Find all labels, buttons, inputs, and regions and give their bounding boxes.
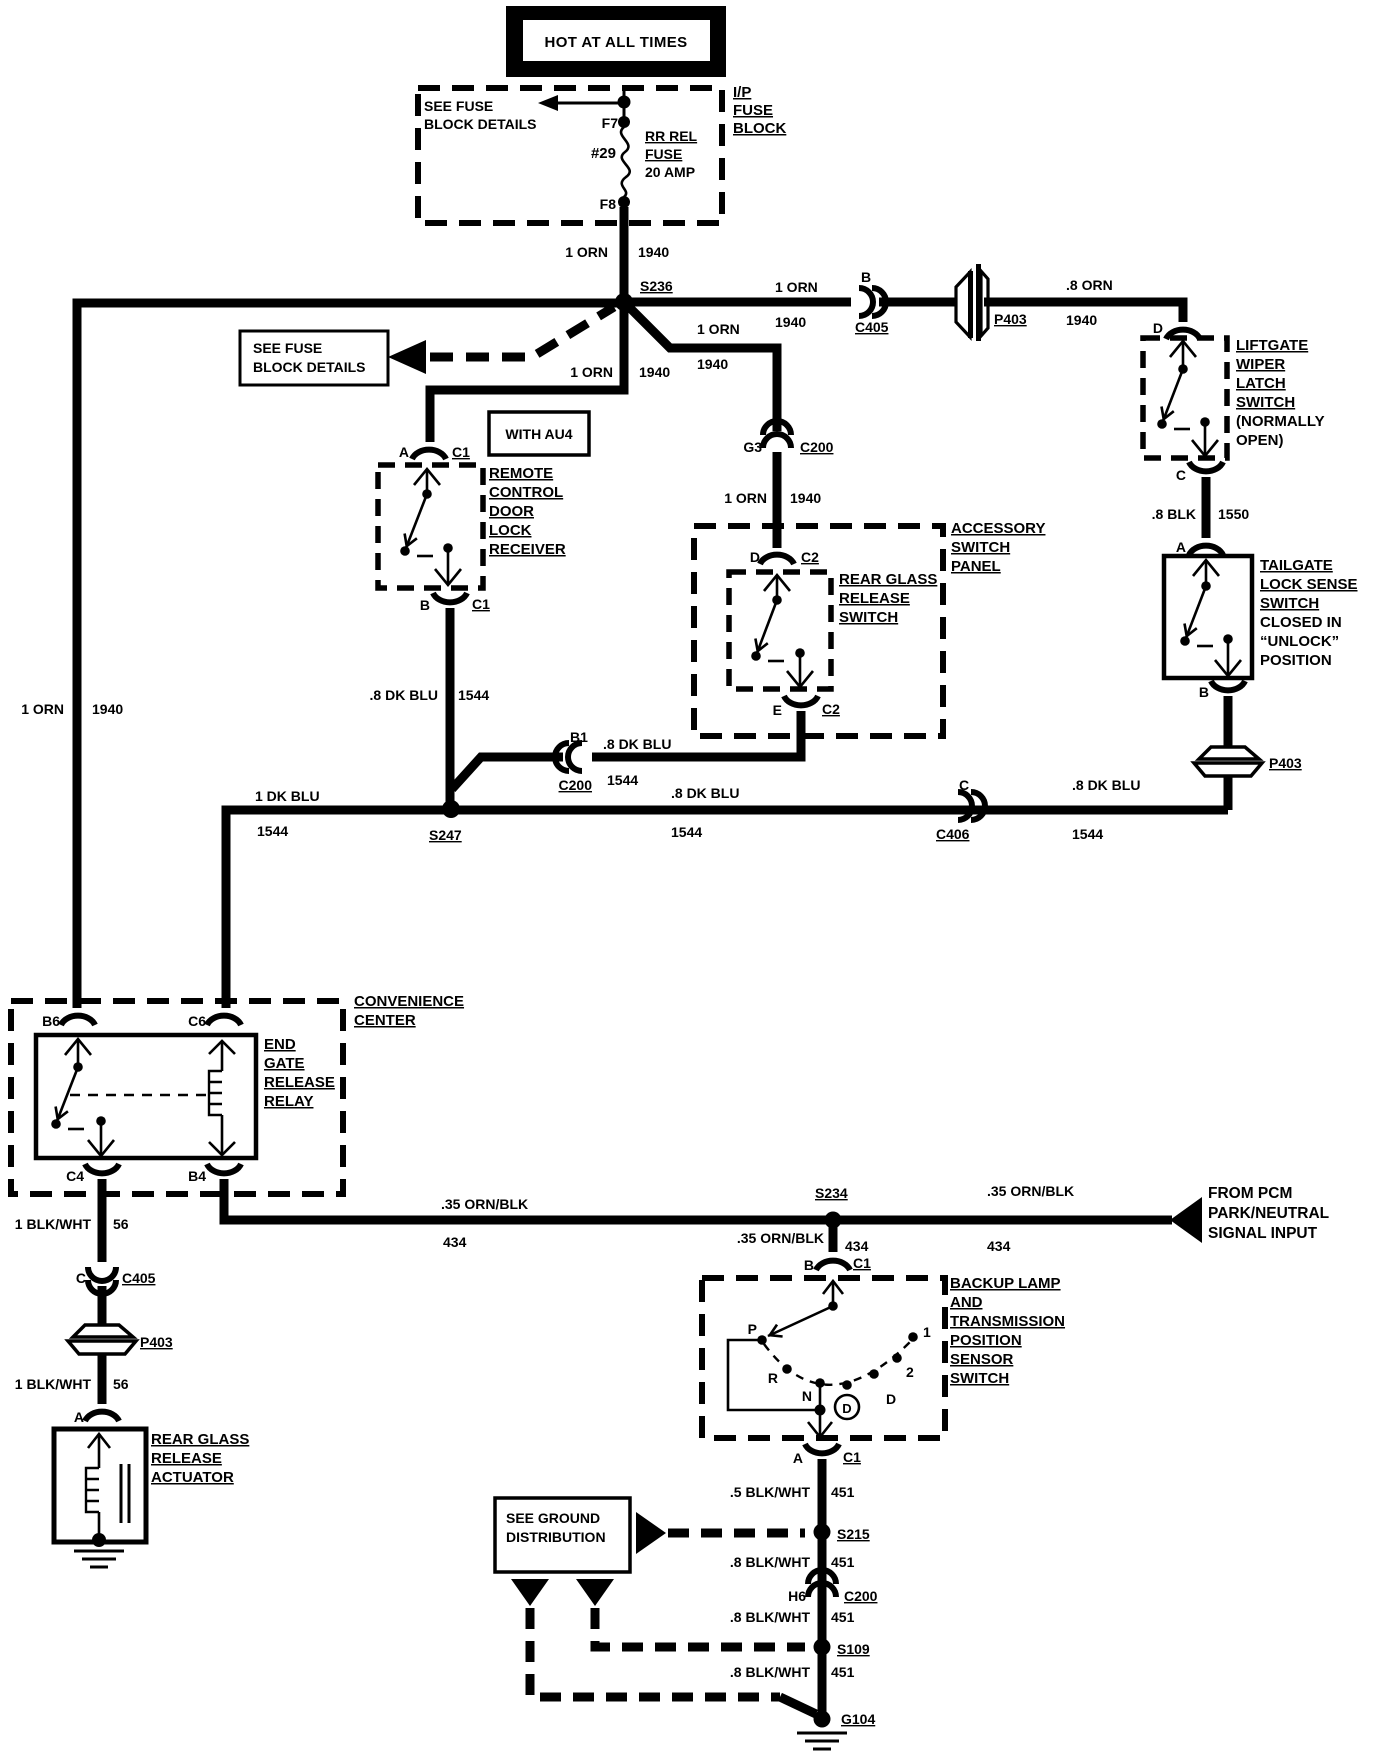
- svg-text:56: 56: [113, 1216, 129, 1232]
- label .8 DK BLU 1544 (receiver out): [370, 687, 490, 703]
- splice S236: [615, 278, 673, 311]
- svg-text:LOCK: LOCK: [489, 522, 532, 539]
- box SEE FUSE BLOCK DETAILS: [240, 331, 388, 385]
- wire receiver B to S247: [446, 608, 455, 804]
- label 1 ORN 1940 (to C405): [775, 279, 818, 330]
- svg-text:1 BLK/WHT: 1 BLK/WHT: [15, 1216, 92, 1232]
- label ACCESSORY SWITCH PANEL: [951, 520, 1045, 575]
- svg-text:ACCESSORY: ACCESSORY: [951, 520, 1045, 537]
- connector B1 C200: [555, 729, 592, 793]
- label .35 ORN/BLK 434 (right): [987, 1183, 1074, 1254]
- svg-text:.35 ORN/BLK: .35 ORN/BLK: [441, 1196, 528, 1212]
- label .35 ORN/BLK 434 (left): [441, 1196, 528, 1250]
- svg-text:.8 BLK: .8 BLK: [1152, 506, 1196, 522]
- label SEE FUSE BLOCK DETAILS (top): [424, 98, 537, 132]
- wire B4 to PCM arrow: [224, 1179, 1172, 1220]
- svg-text:.8 BLK/WHT: .8 BLK/WHT: [730, 1609, 811, 1625]
- connector A (tailgate in): [1176, 539, 1223, 555]
- label 1 BLK/WHT 56 (upper): [15, 1216, 129, 1232]
- label 1 ORN 1940 (to receiver): [570, 364, 670, 380]
- label 1 ORN 1940 (to G3): [697, 321, 740, 372]
- ground G104: [797, 1733, 847, 1749]
- connector H6 C200: [788, 1570, 878, 1604]
- svg-text:RELEASE: RELEASE: [839, 590, 910, 607]
- svg-text:OPEN): OPEN): [1236, 432, 1284, 449]
- backup switch N output: [808, 1383, 832, 1437]
- svg-text:SWITCH: SWITCH: [950, 1370, 1009, 1387]
- svg-text:DISTRIBUTION: DISTRIBUTION: [506, 1529, 606, 1545]
- svg-text:REAR GLASS: REAR GLASS: [839, 571, 937, 588]
- label .8 ORN 1940 (to liftgate): [1066, 277, 1113, 328]
- svg-text:C4: C4: [66, 1168, 84, 1184]
- label BACKUP LAMP AND TRANSMISSION POSITION SENSOR SWITCH: [950, 1275, 1065, 1387]
- label 1 ORN 1940 (to rear glass switch): [724, 490, 821, 506]
- connector E C2 (switch out): [773, 696, 840, 718]
- svg-text:20 AMP: 20 AMP: [645, 164, 695, 180]
- wire B1 to S247 riser: [452, 757, 563, 789]
- label .8 BLK/WHT 451 (S109-G104): [730, 1664, 855, 1680]
- svg-text:1 ORN: 1 ORN: [724, 490, 767, 506]
- svg-text:CONTROL: CONTROL: [489, 484, 563, 501]
- backup switch circled D: [835, 1395, 859, 1419]
- svg-text:2: 2: [906, 1364, 914, 1380]
- svg-text:.8 DK BLU: .8 DK BLU: [370, 687, 438, 703]
- svg-text:.8 DK BLU: .8 DK BLU: [1072, 777, 1140, 793]
- svg-text:SWITCH: SWITCH: [951, 539, 1010, 556]
- svg-text:RELEASE: RELEASE: [264, 1074, 335, 1091]
- svg-text:P: P: [748, 1321, 757, 1337]
- svg-text:BLOCK DETAILS: BLOCK DETAILS: [253, 359, 366, 375]
- wire C405 to P403: [879, 298, 957, 307]
- svg-text:P403: P403: [994, 311, 1027, 327]
- svg-text:C1: C1: [452, 444, 470, 460]
- svg-text:1940: 1940: [790, 490, 821, 506]
- label I/P FUSE BLOCK: [733, 84, 786, 137]
- end gate release relay (box): [36, 1035, 256, 1158]
- svg-text:1544: 1544: [1072, 826, 1103, 842]
- power feed box HOT AT ALL TIMES: [506, 6, 726, 77]
- svg-text:SEE FUSE: SEE FUSE: [253, 340, 322, 356]
- svg-text:S247: S247: [429, 827, 462, 843]
- wire S236 to left riser and down to B6: [77, 303, 620, 1008]
- label FROM PCM PARK/NEUTRAL SIGNAL INPUT: [1208, 1185, 1329, 1242]
- svg-text:LATCH: LATCH: [1236, 375, 1286, 392]
- connector C4: [66, 1164, 119, 1184]
- svg-text:CLOSED IN: CLOSED IN: [1260, 614, 1342, 631]
- svg-text:WIPER: WIPER: [1236, 356, 1285, 373]
- svg-text:451: 451: [831, 1609, 855, 1625]
- dashed arrow to see-fuse-block-details: [430, 307, 614, 357]
- svg-text:SWITCH: SWITCH: [1236, 394, 1295, 411]
- label SEE FUSE BLOCK DETAILS (box): [253, 340, 366, 375]
- svg-text:.8 ORN: .8 ORN: [1066, 277, 1113, 293]
- svg-text:POSITION: POSITION: [1260, 652, 1332, 669]
- svg-text:434: 434: [987, 1238, 1011, 1254]
- svg-text:451: 451: [831, 1554, 855, 1570]
- backup switch position mid: [892, 1353, 902, 1363]
- svg-text:C200: C200: [800, 439, 834, 455]
- svg-text:1 ORN: 1 ORN: [697, 321, 740, 337]
- svg-text:A: A: [399, 444, 409, 460]
- svg-text:1 ORN: 1 ORN: [21, 701, 64, 717]
- wire P403 to 1544 line: [1224, 776, 1233, 810]
- backup switch position P: [748, 1321, 767, 1345]
- svg-text:451: 451: [831, 1664, 855, 1680]
- label .5 BLK/WHT 451 (A out): [730, 1484, 855, 1500]
- svg-text:C1: C1: [853, 1255, 871, 1271]
- svg-text:I/P: I/P: [733, 84, 751, 101]
- svg-text:.35 ORN/BLK: .35 ORN/BLK: [987, 1183, 1074, 1199]
- svg-text:C406: C406: [936, 826, 970, 842]
- svg-text:B1: B1: [570, 729, 588, 745]
- label .8 BLK 1550: [1152, 506, 1250, 522]
- liftgate switch contacts: [1157, 341, 1218, 456]
- splice G104: [814, 1711, 876, 1728]
- splice S234: [815, 1185, 848, 1229]
- ground (actuator): [74, 1551, 124, 1567]
- tailgate lock sense switch (box): [1164, 556, 1252, 678]
- svg-text:451: 451: [831, 1484, 855, 1500]
- receiver switch: [400, 469, 461, 585]
- svg-text:S234: S234: [815, 1185, 848, 1201]
- svg-text:G104: G104: [841, 1711, 875, 1727]
- svg-text:“UNLOCK”: “UNLOCK”: [1260, 633, 1339, 650]
- svg-text:SEE GROUND: SEE GROUND: [506, 1510, 600, 1526]
- svg-text:1550: 1550: [1218, 506, 1249, 522]
- label .35 ORN/BLK 434 (S234 drop): [737, 1230, 869, 1254]
- wire S234 to backup switch B: [829, 1220, 838, 1252]
- svg-text:1544: 1544: [257, 823, 288, 839]
- svg-text:FROM PCM: FROM PCM: [1208, 1185, 1292, 1202]
- backup switch position N: [802, 1378, 825, 1404]
- rear glass release switch (dashed box): [729, 572, 831, 689]
- connector C405 (C, left): [76, 1267, 156, 1294]
- terminal F7: [602, 115, 630, 131]
- arrow to S215: [636, 1512, 805, 1554]
- svg-text:.8 BLK/WHT: .8 BLK/WHT: [730, 1664, 811, 1680]
- label .8 DK BLU 1544 (right riser): [1072, 777, 1140, 842]
- backup lamp switch (dashed box): [702, 1278, 945, 1438]
- svg-text:ACTUATOR: ACTUATOR: [151, 1469, 234, 1486]
- svg-text:CENTER: CENTER: [354, 1012, 416, 1029]
- label .8 BLK/WHT 451 (H6-S109): [730, 1609, 855, 1625]
- see fuse block details arrow (top): [538, 95, 624, 111]
- wire B to P403 (right): [1224, 696, 1233, 747]
- grommet P403 (left): [68, 1325, 173, 1354]
- svg-text:S215: S215: [837, 1526, 870, 1542]
- svg-text:C2: C2: [822, 701, 840, 717]
- splice S109: [814, 1639, 870, 1658]
- connector B6: [42, 1013, 95, 1029]
- label REAR GLASS RELEASE SWITCH: [839, 571, 937, 626]
- svg-text:1 BLK/WHT: 1 BLK/WHT: [15, 1376, 92, 1392]
- svg-text:1940: 1940: [638, 244, 669, 260]
- svg-text:G3: G3: [743, 439, 762, 455]
- svg-text:B4: B4: [188, 1168, 206, 1184]
- wire S236 to C405: [624, 298, 851, 307]
- ground distribution arrow (right): [576, 1579, 614, 1606]
- svg-text:C: C: [1176, 467, 1186, 483]
- label 1 ORN 1940 (left riser): [21, 701, 123, 717]
- wire S236 down-left to receiver A: [430, 302, 624, 442]
- svg-text:1940: 1940: [639, 364, 670, 380]
- svg-text:LOCK SENSE: LOCK SENSE: [1260, 576, 1358, 593]
- svg-text:WITH AU4: WITH AU4: [505, 426, 572, 442]
- svg-text:SIGNAL INPUT: SIGNAL INPUT: [1208, 1225, 1318, 1242]
- svg-text:.8 BLK/WHT: .8 BLK/WHT: [730, 1554, 811, 1570]
- svg-text:D: D: [1153, 320, 1163, 336]
- wire E to B1: [592, 711, 801, 757]
- backup switch position arc (dashed): [764, 1341, 911, 1385]
- label TAILGATE LOCK SENSE SWITCH CLOSED IN UNLOCK POSITION: [1260, 557, 1358, 669]
- convenience center (dashed box): [11, 1001, 343, 1194]
- label CONVENIENCE CENTER: [354, 993, 464, 1029]
- backup switch position 2: [869, 1364, 914, 1380]
- wire C to A (tailgate): [1202, 477, 1211, 538]
- svg-text:C: C: [76, 1270, 86, 1286]
- svg-text:1940: 1940: [92, 701, 123, 717]
- svg-text:SEE FUSE: SEE FUSE: [424, 98, 493, 114]
- wire C4 to C405: [98, 1179, 107, 1262]
- svg-text:R: R: [768, 1370, 778, 1386]
- label 1 BLK/WHT 56 (lower): [15, 1376, 129, 1392]
- connector A C1 (backup switch out): [793, 1444, 861, 1466]
- connector D (liftgate in): [1153, 320, 1200, 339]
- svg-text:D: D: [886, 1391, 896, 1407]
- svg-text:P403: P403: [1269, 755, 1302, 771]
- svg-text:A: A: [793, 1450, 803, 1466]
- remote control door lock receiver (dashed box): [378, 465, 483, 588]
- connector C405 (B): [855, 269, 889, 335]
- relay coil: [209, 1041, 235, 1155]
- wire backup A to G104: [818, 1459, 827, 1719]
- svg-text:BLOCK DETAILS: BLOCK DETAILS: [424, 116, 537, 132]
- svg-text:P403: P403: [140, 1334, 173, 1350]
- svg-text:C6: C6: [188, 1013, 206, 1029]
- svg-text:1: 1: [923, 1324, 931, 1340]
- svg-text:RR REL: RR REL: [645, 128, 698, 144]
- wire P403 to liftgate switch D: [984, 302, 1183, 322]
- svg-text:RELEASE: RELEASE: [151, 1450, 222, 1467]
- grommet P403 (right): [1194, 747, 1302, 776]
- relay switch contacts: [51, 1039, 114, 1156]
- wire S236 diagonal to G3: [624, 302, 777, 431]
- actuator coil: [86, 1434, 129, 1538]
- svg-text:TRANSMISSION: TRANSMISSION: [950, 1313, 1065, 1330]
- svg-text:C405: C405: [122, 1270, 156, 1286]
- svg-text:GATE: GATE: [264, 1055, 305, 1072]
- svg-text:1 DK BLU: 1 DK BLU: [255, 788, 320, 804]
- connector B C1 (receiver out): [420, 593, 490, 613]
- svg-text:PARK/NEUTRAL: PARK/NEUTRAL: [1208, 1205, 1329, 1222]
- svg-text:C1: C1: [472, 596, 490, 612]
- svg-text:C200: C200: [844, 1588, 878, 1604]
- dashed ground wire to S109: [595, 1608, 805, 1647]
- svg-text:FUSE: FUSE: [645, 146, 682, 162]
- svg-text:B: B: [804, 1257, 814, 1273]
- connector G3 C200: [743, 421, 833, 455]
- svg-text:LIFTGATE: LIFTGATE: [1236, 337, 1308, 354]
- label .8 BLK/WHT 451 (S215-H6): [730, 1554, 855, 1570]
- backup switch position D: [842, 1380, 896, 1407]
- svg-text:1544: 1544: [671, 824, 702, 840]
- svg-text:A: A: [1176, 539, 1186, 555]
- svg-text:56: 56: [113, 1376, 129, 1392]
- svg-text:D: D: [750, 549, 760, 565]
- connector B4: [188, 1164, 241, 1184]
- wire G3 to switch D: [773, 452, 782, 548]
- connector A (actuator): [74, 1409, 119, 1425]
- svg-text:AND: AND: [950, 1294, 983, 1311]
- wire F8 to S236: [620, 207, 629, 302]
- svg-text:1940: 1940: [697, 356, 728, 372]
- svg-text:SWITCH: SWITCH: [1260, 595, 1319, 612]
- svg-text:B6: B6: [42, 1013, 60, 1029]
- node to fuse-block-details arrow: [618, 96, 631, 109]
- svg-text:C2: C2: [801, 549, 819, 565]
- fuse RR REL FUSE 20 AMP #29: [591, 127, 698, 197]
- ground distribution arrow (left): [511, 1579, 549, 1606]
- svg-text:1940: 1940: [775, 314, 806, 330]
- backup switch P-N link: [728, 1340, 820, 1410]
- label LIFTGATE WIPER LATCH SWITCH (NORMALLY OPEN): [1236, 337, 1325, 449]
- svg-text:BLOCK: BLOCK: [733, 120, 786, 137]
- svg-text:1544: 1544: [458, 687, 489, 703]
- svg-text:1940: 1940: [1066, 312, 1097, 328]
- wire from hot feed to F7: [623, 88, 626, 120]
- connector D C2 (switch in): [750, 549, 819, 565]
- splice S247: [429, 800, 462, 843]
- svg-text:1 ORN: 1 ORN: [775, 279, 818, 295]
- svg-text:F8: F8: [600, 196, 617, 212]
- label REAR GLASS RELEASE ACTUATOR: [151, 1431, 249, 1486]
- svg-text:CONVENIENCE: CONVENIENCE: [354, 993, 464, 1010]
- box SEE GROUND DISTRIBUTION: [495, 1498, 630, 1572]
- svg-text:S236: S236: [640, 278, 673, 294]
- label END GATE RELEASE RELAY: [264, 1036, 335, 1110]
- label SEE GROUND DISTRIBUTION: [506, 1510, 606, 1545]
- svg-text:RECEIVER: RECEIVER: [489, 541, 566, 558]
- svg-text:FUSE: FUSE: [733, 102, 773, 119]
- arrowhead to fuse details box: [388, 340, 426, 374]
- svg-text:C200: C200: [559, 777, 593, 793]
- wire P403 to actuator A: [98, 1354, 107, 1404]
- backup switch selector arm: [768, 1281, 843, 1337]
- svg-text:D: D: [842, 1401, 851, 1416]
- svg-text:C: C: [959, 777, 969, 793]
- wire 1544 main run: [226, 810, 1228, 1008]
- svg-text:H6: H6: [788, 1588, 806, 1604]
- svg-text:F7: F7: [602, 115, 619, 131]
- svg-text:C405: C405: [855, 319, 889, 335]
- terminal F8: [600, 196, 630, 212]
- connector C6: [188, 1013, 241, 1029]
- rear glass release switch contacts: [751, 575, 813, 687]
- label REMOTE CONTROL DOOR LOCK RECEIVER: [489, 465, 566, 558]
- svg-text:REAR GLASS: REAR GLASS: [151, 1431, 249, 1448]
- rear glass release actuator (box): [54, 1429, 146, 1542]
- svg-text:1 ORN: 1 ORN: [570, 364, 613, 380]
- connector C (liftgate out): [1176, 462, 1223, 483]
- backup switch position 1: [908, 1324, 931, 1342]
- connector A C1 (receiver in): [399, 444, 470, 460]
- tailgate switch contacts: [1180, 560, 1241, 676]
- connector B C1 (backup switch in): [804, 1255, 871, 1273]
- I/P fuse block (dashed): [418, 88, 722, 223]
- liftgate wiper latch switch (dashed box): [1143, 338, 1227, 458]
- svg-text:REMOTE: REMOTE: [489, 465, 553, 482]
- svg-text:B: B: [1199, 684, 1209, 700]
- svg-text:SENSOR: SENSOR: [950, 1351, 1014, 1368]
- arrowhead FROM PCM: [1170, 1197, 1202, 1243]
- svg-text:BACKUP LAMP: BACKUP LAMP: [950, 1275, 1061, 1292]
- svg-text:#29: #29: [591, 145, 616, 162]
- svg-text:.8 DK BLU: .8 DK BLU: [603, 736, 671, 752]
- svg-text:POSITION: POSITION: [950, 1332, 1022, 1349]
- svg-text:END: END: [264, 1036, 296, 1053]
- connector B (tailgate out): [1199, 681, 1245, 700]
- svg-text:1544: 1544: [607, 772, 638, 788]
- label 1 DK BLU 1544 (left): [255, 788, 320, 839]
- grommet P403 (top): [956, 264, 1027, 341]
- svg-text:434: 434: [845, 1238, 869, 1254]
- label .8 DK BLU 1544 (middle): [671, 785, 739, 840]
- svg-text:TAILGATE: TAILGATE: [1260, 557, 1333, 574]
- svg-text:.8 DK BLU: .8 DK BLU: [671, 785, 739, 801]
- svg-text:N: N: [802, 1388, 812, 1404]
- label .8 DK BLU 1544 (E out): [603, 736, 671, 788]
- svg-text:PANEL: PANEL: [951, 558, 1001, 575]
- svg-text:DOOR: DOOR: [489, 503, 534, 520]
- splice S215: [814, 1524, 870, 1543]
- svg-text:B: B: [861, 269, 871, 285]
- svg-text:1 ORN: 1 ORN: [565, 244, 608, 260]
- box WITH AU4: [489, 412, 589, 455]
- svg-text:434: 434: [443, 1234, 467, 1250]
- svg-text:A: A: [74, 1409, 84, 1425]
- svg-text:C1: C1: [843, 1449, 861, 1465]
- svg-text:(NORMALLY: (NORMALLY: [1236, 413, 1325, 430]
- dashed ground wire to G104: [530, 1608, 816, 1714]
- wire C405 to P403 (left): [98, 1286, 107, 1326]
- svg-text:B: B: [420, 597, 430, 613]
- svg-text:HOT AT ALL TIMES: HOT AT ALL TIMES: [544, 34, 687, 51]
- svg-text:S109: S109: [837, 1641, 870, 1657]
- relay actuation dashed link: [70, 1094, 207, 1096]
- accessory switch panel (dashed box): [694, 526, 943, 736]
- svg-text:.35 ORN/BLK: .35 ORN/BLK: [737, 1230, 824, 1246]
- svg-text:SWITCH: SWITCH: [839, 609, 898, 626]
- svg-text:E: E: [773, 702, 782, 718]
- svg-text:.5 BLK/WHT: .5 BLK/WHT: [730, 1484, 811, 1500]
- svg-text:RELAY: RELAY: [264, 1093, 313, 1110]
- actuator ground node: [92, 1533, 106, 1547]
- backup switch position R: [768, 1364, 792, 1386]
- connector C406 (C): [936, 777, 985, 842]
- label 1 ORN 1940 (fuse output): [565, 244, 669, 260]
